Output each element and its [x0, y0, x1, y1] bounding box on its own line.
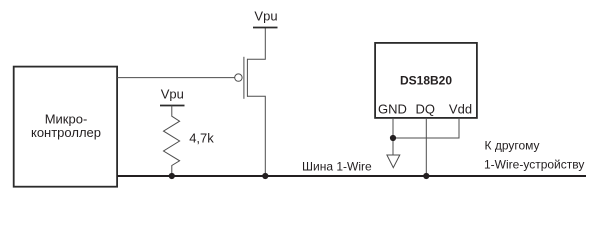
node junction transistor to bus — [262, 173, 268, 179]
label К другому 1-Wire-устройству — [484, 138, 584, 171]
svg-text:DS18B20: DS18B20 — [400, 73, 452, 87]
DS18B20 box U2 — [375, 43, 477, 118]
power terminal Vpu of resistor — [160, 87, 185, 106]
node junction GND pin — [390, 135, 396, 141]
wire GND pin — [392, 118, 394, 155]
svg-text:контроллер: контроллер — [31, 125, 101, 140]
node junction DQ to bus — [423, 173, 429, 179]
wire GND to Vdd (parasite power) — [393, 118, 459, 138]
microcontroller box U1 — [14, 67, 117, 187]
ground symbol — [387, 155, 400, 168]
power terminal Vpu of transistor — [253, 9, 278, 28]
svg-text:Шина 1-Wire: Шина 1-Wire — [302, 159, 372, 173]
resistor R1 4,7k — [164, 106, 215, 177]
svg-text:DQ: DQ — [415, 101, 435, 116]
wire 1-Wire bus — [117, 175, 586, 177]
node junction resistor to bus — [169, 173, 175, 179]
svg-text:Vdd: Vdd — [449, 101, 472, 116]
wire DQ pin to bus — [425, 118, 427, 176]
label Шина 1-Wire — [302, 159, 372, 173]
wire gate (microcontroller to transistor) — [117, 77, 235, 79]
transistor Q1 P-channel MOSFET — [235, 28, 266, 177]
svg-text:GND: GND — [378, 101, 407, 116]
svg-text:Vpu: Vpu — [254, 9, 277, 24]
svg-text:1-Wire-устройству: 1-Wire-устройству — [484, 157, 584, 171]
svg-text:К другому: К другому — [485, 138, 540, 152]
svg-text:Vpu: Vpu — [161, 87, 184, 102]
svg-text:4,7k: 4,7k — [189, 131, 214, 146]
